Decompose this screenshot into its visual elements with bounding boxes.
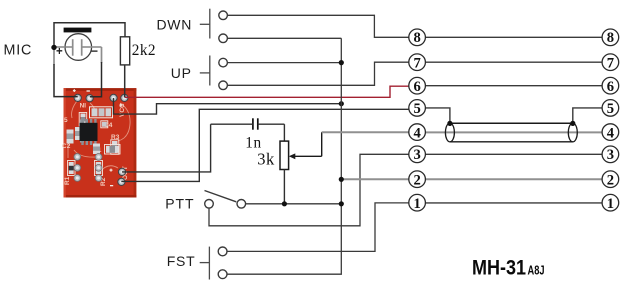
wire DWN bottom to ground bus [227, 37, 341, 39]
UP bracket [200, 72, 210, 74]
wire resistor bottom to VCC+ pad [124, 65, 126, 98]
switch PTT lever [205, 191, 237, 202]
component: SMD mid [75, 127, 82, 140]
svg-text:UP: UP [171, 65, 192, 81]
svg-text:5: 5 [607, 101, 614, 117]
svg-text:7: 7 [413, 56, 420, 72]
wire pin 2 to plug pin 2 (gray) [425, 178, 602, 180]
wire PTT left contact to pin 3 [209, 154, 409, 226]
junction dot bus/UP [339, 60, 344, 65]
DWN bracket [200, 23, 210, 25]
svg-text:7: 7 [607, 56, 614, 72]
wire mic- down to board IN- [90, 62, 102, 97]
wire pin 7 to plug pin 7 [425, 61, 602, 63]
plug pin 1 [602, 194, 619, 212]
junction dot bus/PTT [339, 201, 344, 206]
wire UP top to ground bus [227, 62, 341, 64]
node A junction dot [51, 45, 56, 50]
mic connector pin 1 [409, 194, 426, 212]
red wire VCC+ to pin 6 [125, 86, 409, 97]
mic connector pin 3 [409, 146, 426, 163]
pad IN- [86, 95, 93, 102]
svg-text:C2: C2 [62, 143, 71, 150]
pad VCC- [110, 94, 117, 101]
plug pin 8 [602, 29, 619, 46]
wire pin 1 to plug pin 1 [425, 202, 602, 204]
mic connector pin 2 [409, 171, 426, 189]
wires board OUT- to pin5 line [121, 109, 409, 181]
wire DWN top to pin 8 [227, 15, 409, 37]
plug pin 6 [602, 77, 619, 95]
svg-text:MIC: MIC [4, 42, 33, 58]
junction dot bus/pin2 [339, 177, 344, 182]
component: SMD R3 [111, 140, 119, 155]
polarity marks [73, 89, 123, 186]
wire pin 8 to plug pin 8 [425, 36, 602, 38]
mic connector pin 6 [409, 77, 426, 95]
switch PTT contact right [237, 200, 246, 209]
pad OUT+ [118, 168, 125, 175]
wire pin 6 to plug pin 6 [425, 85, 602, 87]
pad VCC+ [121, 94, 128, 101]
svg-text:3k: 3k [257, 149, 275, 168]
wire pin 5 to cable shield left [425, 108, 450, 124]
switch DWN contact bottom [219, 34, 228, 43]
svg-text:1: 1 [607, 196, 614, 212]
mic connector pin 7 [409, 54, 426, 72]
wire mic+ down to board IN+ [54, 64, 78, 97]
svg-text:6: 6 [607, 79, 614, 95]
plug pin 2 [602, 171, 619, 189]
svg-text:IN: IN [79, 101, 86, 108]
svg-text:R1: R1 [64, 176, 71, 185]
wire pin 4 conductor through cable (gray) [425, 131, 602, 133]
junction dot bus/VCC- [339, 101, 344, 106]
switch PTT contact left [205, 200, 214, 209]
svg-text:2: 2 [607, 173, 614, 189]
switch UP contact top [219, 58, 228, 67]
svg-text:A8J: A8J [528, 264, 545, 278]
wire mic top loop to resistor [54, 23, 125, 45]
svg-text:2k2: 2k2 [132, 42, 156, 59]
svg-text:MH-31: MH-31 [472, 256, 526, 280]
svg-text:FST: FST [167, 253, 196, 269]
wiper arrow to pin 4 [289, 132, 322, 159]
component: SMD R2 body [95, 161, 103, 176]
mic lead stubs (gray) [54, 47, 102, 65]
svg-text:3: 3 [607, 147, 614, 163]
switch FST contact top [218, 247, 227, 256]
component: SMD C4 [101, 121, 108, 128]
svg-text:DWN: DWN [157, 16, 193, 32]
plug pin 5 [602, 100, 619, 118]
pad OUT- [118, 178, 125, 185]
potentiometer 3k [280, 124, 289, 204]
wire pin 3 to plug pin 3 [425, 153, 602, 155]
plug pin 3 [602, 146, 619, 163]
ground bus vertical [227, 38, 341, 274]
svg-text:5: 5 [413, 101, 420, 117]
plug pin 4 [602, 124, 619, 142]
wire pin 4 line (gray) [322, 131, 409, 133]
resistor R 2k2 [120, 37, 129, 65]
capacitor C1 1n [211, 118, 285, 129]
mic connector pin 5 [409, 100, 426, 118]
svg-text:2: 2 [413, 173, 420, 189]
plug pin 7 [602, 54, 619, 72]
svg-text:8: 8 [607, 30, 614, 46]
svg-text:5: 5 [64, 117, 68, 124]
pads R2 column [95, 154, 102, 182]
wire pin 2 to ground bus (gray) [341, 178, 409, 180]
switch DWN contact top [219, 11, 228, 20]
svg-text:4: 4 [607, 125, 615, 141]
component: SMD R bottom [105, 145, 121, 155]
mic connector pin 8 [409, 29, 426, 46]
wire FST top to pin 1 [227, 203, 409, 252]
component: big cap footprint [90, 107, 113, 118]
mic connector pin 4 [409, 124, 426, 142]
pad IN+ [74, 94, 81, 101]
component: SMD C1 [93, 144, 100, 155]
svg-text:PTT: PTT [165, 195, 194, 211]
switch UP contact bottom [219, 81, 228, 90]
amplifier module PCB U1 [62, 88, 136, 197]
junction dot shield left [447, 121, 452, 126]
svg-text:1: 1 [413, 196, 420, 212]
wire PTT common to ground bus [246, 203, 342, 205]
FST bracket [200, 262, 210, 264]
svg-text:4: 4 [413, 125, 421, 141]
component: SMD C2 [67, 130, 74, 144]
switch FST contact bottom [218, 270, 227, 279]
junction dot pot/PTT [282, 201, 287, 206]
silkscreen traces [68, 101, 130, 172]
pads R1 column [74, 154, 81, 182]
microphone MK1 electret symbol [56, 28, 98, 61]
svg-text:−: − [91, 44, 98, 58]
junction dot shield right [570, 121, 575, 126]
IC U2 [80, 119, 98, 145]
svg-text:3: 3 [413, 147, 420, 163]
wire UP bottom to pin 7 [227, 62, 409, 85]
wire cable shield right to plug pin 5 [573, 108, 602, 124]
wires board OUT+ to cap node [122, 124, 211, 172]
svg-text:8: 8 [413, 30, 420, 46]
svg-text:6: 6 [413, 79, 420, 95]
silkscreen texts [62, 101, 129, 186]
shielded cable [445, 123, 577, 142]
component: SMD R1 body [68, 161, 76, 176]
component: SMD R5 [79, 113, 87, 127]
wire VCC- to ground bus [114, 98, 342, 114]
